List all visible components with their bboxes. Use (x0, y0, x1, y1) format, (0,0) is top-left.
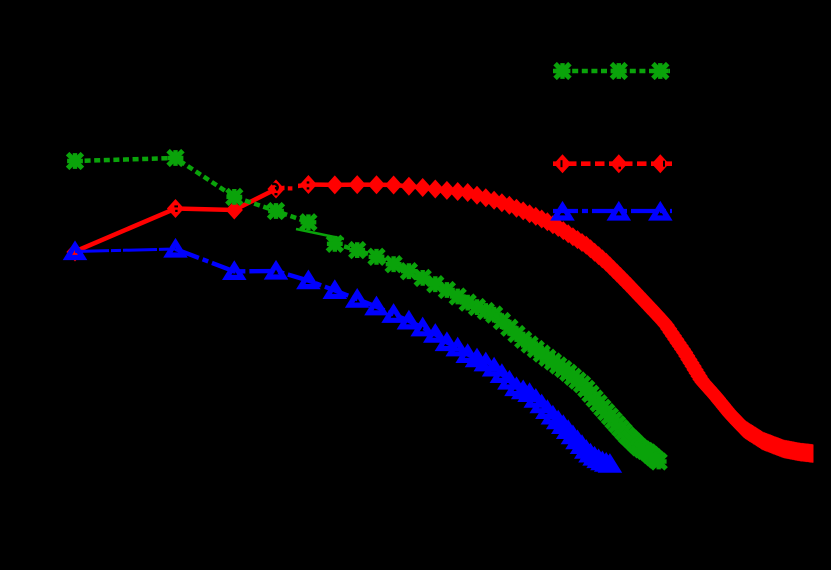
red diamond markers (66, 175, 830, 464)
red series line (solid) (75, 185, 821, 455)
blue triangle markers (67, 243, 617, 470)
green thin dip line (296, 229, 344, 239)
blue series line (dash-dot) (176, 249, 610, 464)
legend green entry (553, 63, 670, 79)
green star markers (67, 150, 667, 469)
legend red entry (553, 154, 672, 173)
green series line (dashed) part 1 (75, 158, 308, 222)
blue line first segment (thin) (75, 249, 176, 252)
green series line (dashed) part 2 (335, 244, 659, 462)
legend blue entry (553, 206, 672, 218)
black text artifacts over red diamonds (174, 181, 309, 212)
